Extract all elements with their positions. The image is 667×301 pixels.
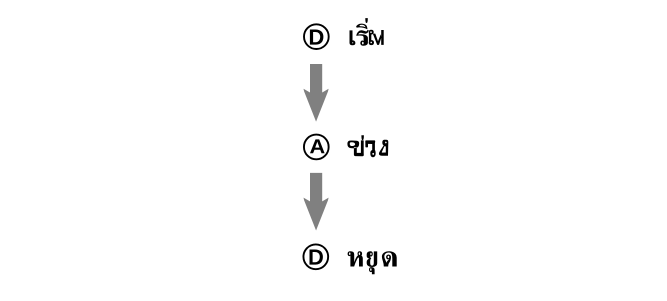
- label word เริ่ม (start): [350, 18, 384, 46]
- label word ถ่วง (retard): [347, 135, 388, 157]
- node D2 circle: [303, 244, 328, 269]
- node D1 letter D: [310, 30, 324, 45]
- arrow 1 (D1 -> A): [304, 64, 329, 122]
- node A letter A: [310, 139, 325, 153]
- label word หยุด (stop): [348, 251, 397, 274]
- node D1 circle: [304, 24, 329, 49]
- node D2 letter D: [310, 250, 323, 265]
- arrow 2 (A -> D2): [304, 173, 329, 231]
- node A circle: [304, 135, 329, 160]
